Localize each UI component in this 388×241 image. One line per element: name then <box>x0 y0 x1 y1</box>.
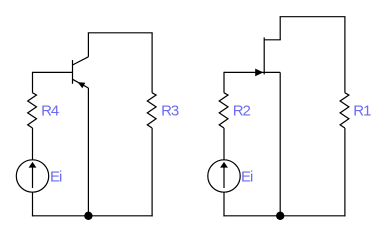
wire current source to bottom rail <box>32 192 34 216</box>
wire collector step horizontal <box>264 39 281 41</box>
wire base of Q1 <box>33 71 73 73</box>
resistor R2 <box>219 93 228 128</box>
wire R4 to current source <box>32 128 34 160</box>
resistor R4 <box>28 93 37 128</box>
wire right branch upper (right circuit) <box>344 17 346 93</box>
resistor R3 <box>147 93 156 128</box>
svg-text:R4: R4 <box>41 103 59 120</box>
wire R3 branch upper <box>151 33 153 93</box>
svg-text:R3: R3 <box>161 103 179 120</box>
svg-text:R2: R2 <box>233 103 251 120</box>
wire middle branch down (right circuit) <box>279 72 281 215</box>
wire left branch top (right circuit) <box>223 72 225 93</box>
wire emitter lead with diode arrow (right circuit) <box>224 71 280 73</box>
wire collector up <box>87 33 89 57</box>
svg-text:Ei: Ei <box>50 169 62 186</box>
wire top rail (left circuit) <box>88 32 153 34</box>
diode arrow of Q1 equivalent <box>255 69 263 77</box>
junction dot (right circuit) <box>276 212 284 220</box>
current source Ei (right) <box>208 160 240 192</box>
junction dot (left circuit) <box>84 212 92 220</box>
current source Ei (left) <box>16 160 48 192</box>
wire collector step vertical <box>279 17 281 40</box>
transistor Q1 <box>73 57 89 89</box>
wire right branch lower (right circuit) <box>344 128 346 216</box>
base bar of Q1 equivalent <box>263 37 265 74</box>
wire R2 to current source <box>223 128 225 160</box>
wire top rail (right circuit) <box>280 16 346 18</box>
resistor R1 <box>340 93 349 128</box>
wire bottom rail (right circuit) <box>223 215 345 217</box>
wire emitter down <box>87 88 89 216</box>
svg-text:Ei: Ei <box>241 169 253 186</box>
wire left branch top (base to R4) <box>32 72 34 93</box>
wire bottom rail (left circuit) <box>32 215 153 217</box>
wire current source to bottom rail (right) <box>223 192 225 216</box>
svg-text:R1: R1 <box>353 103 371 120</box>
wire R3 branch lower <box>151 128 153 216</box>
